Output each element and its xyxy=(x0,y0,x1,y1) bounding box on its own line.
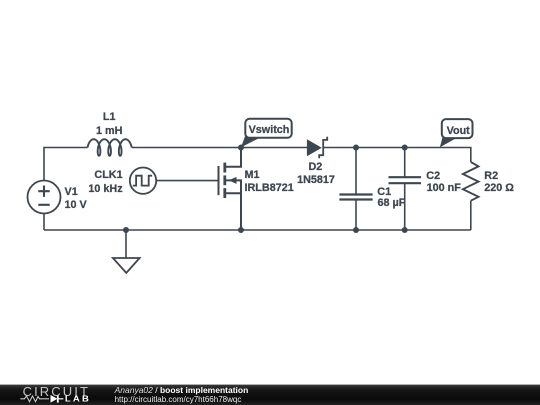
value IRLB8721 xyxy=(245,183,294,194)
capacitor C2 top wire xyxy=(404,148,406,178)
label D2 xyxy=(308,162,322,173)
label C1 xyxy=(377,187,391,198)
inductor L1 coil xyxy=(88,139,132,156)
M1 body arrow head xyxy=(229,177,237,184)
logo LAB text xyxy=(65,396,91,404)
M1 drain wire xyxy=(226,148,241,167)
node label Vswitch text xyxy=(249,125,290,136)
junction dot C2 bottom xyxy=(402,227,408,233)
logo diode symbol xyxy=(51,395,58,403)
value 1N5817 xyxy=(297,175,335,186)
junction dot Vswitch node xyxy=(238,145,244,151)
value 1 mH xyxy=(96,126,122,137)
value 100 nF xyxy=(427,183,461,194)
wire bottom rail xyxy=(44,229,471,231)
M1 channel bottom bar xyxy=(223,188,226,198)
M1 channel middle bar xyxy=(223,175,226,185)
wire V1 bottom xyxy=(43,214,45,231)
footer title line xyxy=(115,386,249,395)
junction dot C1 bottom xyxy=(353,227,359,233)
wire top rail from L1 to diode anode xyxy=(132,147,307,149)
value 220 Ohm xyxy=(484,183,514,194)
node label Vout text xyxy=(447,126,470,137)
label CLK1 xyxy=(94,170,122,181)
ground symbol triangle xyxy=(113,258,140,273)
capacitor C1 top wire xyxy=(355,148,357,195)
value 10 V xyxy=(65,200,87,211)
C2 plates xyxy=(389,177,422,183)
wire CLK1 to M1 gate xyxy=(156,180,218,182)
junction dot C1 top xyxy=(353,145,359,151)
wire top rail diode cathode to R2 corner xyxy=(323,148,471,163)
transistor M1 gate bar xyxy=(218,166,220,195)
label C2 xyxy=(426,171,440,182)
label R2 xyxy=(484,171,498,182)
M1 channel top bar xyxy=(223,163,226,173)
CLK1 square wave glyph xyxy=(133,176,152,186)
Vout callout pointer xyxy=(440,136,456,148)
C1 bottom wire xyxy=(355,200,357,231)
clock source CLK1 circle xyxy=(130,168,156,194)
voltage source V1 circle xyxy=(28,181,61,214)
V1 plus sign xyxy=(38,186,49,197)
logo resistor zigzag xyxy=(20,396,49,402)
M1 source wire to bottom rail xyxy=(226,193,241,230)
junction dot C2 top xyxy=(402,145,408,151)
junction dot ground xyxy=(123,227,129,233)
value 68 uF xyxy=(378,198,406,209)
node Vswitch callout box xyxy=(245,119,291,138)
junction dot M1 source xyxy=(238,227,244,233)
value 10 kHz xyxy=(88,184,122,195)
R2 bottom wire xyxy=(470,201,472,230)
resistor R2 zigzag xyxy=(463,162,479,201)
wire left vertical from V1 to top rail xyxy=(44,148,88,181)
node Vout callout box xyxy=(442,119,473,138)
label M1 xyxy=(245,170,260,181)
diode D2 triangle xyxy=(307,139,322,156)
label V1 xyxy=(65,187,78,198)
M1 body wire xyxy=(226,180,241,193)
footer url line xyxy=(115,396,242,404)
C1 plates xyxy=(339,195,372,200)
diode D2 cathode bar with schottky hooks xyxy=(319,137,327,159)
logo CIRCUIT text xyxy=(23,385,90,398)
Vswitch callout pointer xyxy=(241,135,260,148)
ground stem wire xyxy=(125,230,127,258)
label L1 xyxy=(103,112,116,123)
V1 minus sign xyxy=(38,204,49,206)
C2 bottom wire xyxy=(404,183,406,230)
